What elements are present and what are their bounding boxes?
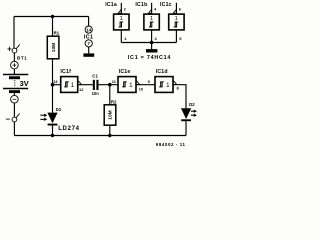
- wire IC1b input stub pin 3: [151, 30, 153, 43]
- svg-text:1: 1: [175, 16, 178, 22]
- wire R1 to node A: [52, 59, 54, 85]
- svg-text:12: 12: [79, 87, 84, 92]
- node bottom rail at D1: [51, 134, 54, 137]
- inverter gate IC1d: [155, 77, 177, 93]
- battery cell 2 long plate: [3, 88, 28, 90]
- svg-text:IC1a: IC1a: [105, 2, 117, 8]
- battery cell 1 thick plate: [9, 76, 20, 79]
- svg-text:3V: 3V: [20, 79, 29, 88]
- wire IC1c output stub pin 6: [175, 3, 177, 14]
- wire joining pins 1,3,5: [121, 42, 176, 44]
- battery BT1 minus pole circle: [11, 95, 19, 104]
- svg-text:1: 1: [71, 82, 75, 89]
- svg-text:R2: R2: [111, 99, 117, 104]
- svg-text:1: 1: [129, 82, 133, 89]
- wire battery positive drop: [13, 17, 15, 49]
- inverter gate IC1a: [114, 9, 129, 30]
- svg-text:10M: 10M: [51, 43, 57, 53]
- node A (R1, D1, IC1f input): [51, 83, 55, 87]
- svg-text:+: +: [7, 45, 12, 54]
- ground bar under gates: [146, 49, 157, 52]
- wire minus pole down: [13, 103, 15, 117]
- svg-text:IC1b: IC1b: [135, 2, 147, 8]
- svg-text:IC1e: IC1e: [119, 69, 131, 75]
- wire top rail V+: [14, 16, 89, 18]
- wire cell 2 to minus pole: [13, 93, 15, 95]
- svg-text:IC1 = 74HC14: IC1 = 74HC14: [128, 55, 171, 61]
- wire terminal to battery: [13, 53, 15, 61]
- ground bar under pin 7: [83, 53, 94, 56]
- wire bottom rail: [14, 135, 186, 137]
- capacitor C1: [93, 80, 99, 90]
- node top rail junction to R1: [51, 15, 54, 18]
- svg-text:IC1c: IC1c: [160, 2, 172, 8]
- svg-text:–: –: [12, 95, 16, 104]
- wire node B down to R2: [109, 85, 111, 105]
- inverter gate IC1c: [169, 9, 184, 30]
- wire C1 to node B: [99, 84, 119, 86]
- light arrows into D1: [40, 114, 47, 121]
- svg-text:+: +: [12, 61, 17, 70]
- svg-text:10: 10: [139, 86, 144, 91]
- inverter gate IC1f: [61, 77, 82, 93]
- wire IC1c input stub pin 5: [175, 30, 177, 43]
- battery dotted cell link: [14, 80, 16, 87]
- node bottom rail at R2: [108, 134, 111, 137]
- wire top node to R1: [52, 17, 54, 37]
- battery minus terminal clip: [12, 114, 20, 122]
- light arrows out of D2: [191, 110, 197, 117]
- wire node A to IC1f input: [53, 84, 61, 86]
- svg-text:–: –: [6, 115, 11, 124]
- svg-text:13: 13: [53, 79, 58, 84]
- wire D1 cathode to bottom rail: [52, 126, 54, 136]
- photodiode D1: [47, 113, 57, 126]
- wire D2 cathode to bottom rail: [185, 121, 187, 135]
- wire plus pole to cell 1: [13, 69, 15, 75]
- svg-text:1: 1: [120, 16, 123, 22]
- pin 14 circle: [85, 26, 92, 33]
- wire junction to ground: [151, 43, 153, 50]
- battery BT1 plus pole circle: [11, 61, 19, 70]
- pin 7 circle: [85, 40, 92, 47]
- svg-text:10n: 10n: [92, 91, 100, 96]
- wire IC1e output to IC1d input: [136, 84, 155, 86]
- svg-text:10M: 10M: [108, 110, 114, 120]
- wire node A down to D1: [52, 85, 54, 113]
- wire IC1b output stub pin 4: [151, 3, 153, 14]
- svg-text:IC1f: IC1f: [60, 69, 71, 75]
- svg-text:1: 1: [166, 82, 170, 89]
- node B (C1, R2, IC1e input): [108, 83, 112, 87]
- battery plus terminal clip: [12, 45, 20, 53]
- svg-text:LD274: LD274: [58, 126, 80, 132]
- resistor R2: [104, 105, 116, 125]
- svg-text:984002 - 11: 984002 - 11: [156, 142, 186, 147]
- wire IC1f output to C1: [78, 84, 93, 86]
- wire minus terminal to bottom rail: [13, 122, 15, 136]
- inverter gate IC1e: [118, 77, 140, 93]
- wire IC1a input stub pin 1: [120, 30, 122, 43]
- wire IC1d output to D2: [173, 85, 186, 109]
- LED D2: [181, 108, 191, 121]
- battery cell 1 long plate: [3, 74, 28, 76]
- svg-text:14: 14: [86, 27, 92, 32]
- svg-text:R1: R1: [54, 31, 60, 36]
- battery cell 2 thick plate: [9, 90, 20, 93]
- svg-text:IC1d: IC1d: [156, 69, 168, 75]
- svg-text:C1: C1: [92, 73, 98, 78]
- svg-text:BT1: BT1: [17, 56, 27, 61]
- node unused-gate inputs junction: [150, 41, 154, 45]
- inverter gate IC1b: [144, 9, 159, 30]
- svg-text:D1: D1: [56, 107, 62, 112]
- wire IC supply drop to pin 14: [88, 17, 90, 27]
- svg-text:D2: D2: [189, 102, 195, 107]
- resistor R1: [47, 36, 59, 59]
- svg-text:1: 1: [150, 16, 153, 22]
- wire pin 7 to ground: [88, 47, 90, 54]
- wire R2 to bottom rail: [109, 125, 111, 135]
- wire IC1a output stub pin 2: [120, 3, 122, 14]
